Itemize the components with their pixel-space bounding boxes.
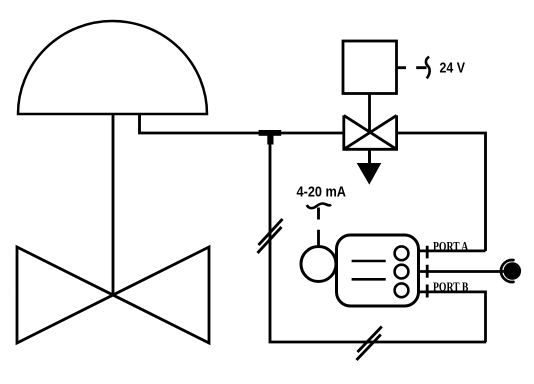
svg-text:4-20 mA: 4-20 mA — [297, 184, 347, 201]
svg-text:PORT B: PORT B — [433, 280, 468, 294]
svg-text:24 V: 24 V — [440, 60, 466, 77]
svg-text:PORT A: PORT A — [433, 240, 468, 254]
